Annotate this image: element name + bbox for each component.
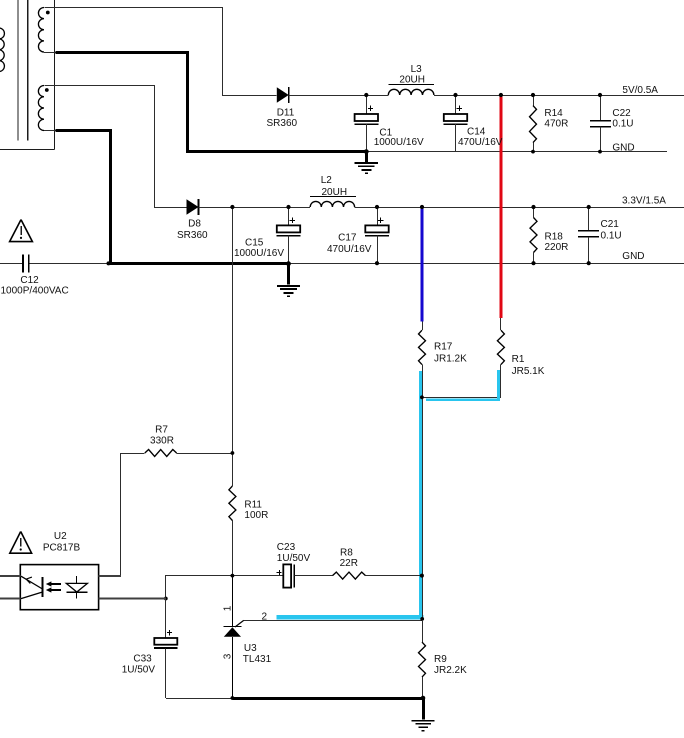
svg-text:GND: GND [612,142,634,153]
svg-text:R1: R1 [512,354,525,365]
svg-text:3: 3 [223,653,234,659]
svg-text:C33: C33 [133,654,152,665]
svg-text:1U/50V: 1U/50V [122,665,156,676]
svg-text:C21: C21 [601,219,620,230]
svg-text:R8: R8 [340,548,353,559]
svg-text:470R: 470R [544,119,568,130]
svg-text:1: 1 [223,605,234,611]
svg-text:470U/16V: 470U/16V [327,244,372,255]
svg-text:22R: 22R [340,558,358,569]
svg-text:R14: R14 [544,108,563,119]
svg-text:U3: U3 [244,643,257,654]
svg-text:C23: C23 [277,542,296,553]
svg-text:1U/50V: 1U/50V [277,553,311,564]
svg-text:20UH: 20UH [399,74,425,85]
svg-text:L3: L3 [411,64,423,75]
svg-text:JR5.1K: JR5.1K [512,366,545,377]
svg-text:1000P/400VAC: 1000P/400VAC [1,286,69,297]
svg-text:R11: R11 [244,500,262,511]
svg-text:1000U/16V: 1000U/16V [234,248,284,259]
svg-text:L2: L2 [321,175,333,186]
svg-text:0.1U: 0.1U [612,119,633,130]
svg-text:330R: 330R [150,436,174,447]
svg-text:C17: C17 [338,233,357,244]
svg-text:5V/0.5A: 5V/0.5A [622,85,658,96]
svg-text:100R: 100R [244,510,268,521]
svg-text:C15: C15 [245,238,264,249]
svg-text:D11: D11 [277,107,295,118]
svg-text:U2: U2 [54,531,67,542]
svg-text:1000U/16V: 1000U/16V [374,137,424,148]
svg-text:SR360: SR360 [177,230,208,241]
svg-text:470U/16V: 470U/16V [458,137,503,148]
svg-text:3.3V/1.5A: 3.3V/1.5A [622,196,666,207]
svg-text:PC817B: PC817B [43,543,81,554]
svg-text:220R: 220R [545,242,569,253]
svg-text:D8: D8 [188,219,201,230]
svg-text:JR1.2K: JR1.2K [434,354,467,365]
svg-text:C22: C22 [612,108,631,119]
svg-text:R17: R17 [434,342,453,353]
svg-text:SR360: SR360 [267,118,298,129]
svg-text:R7: R7 [155,425,168,436]
svg-text:R9: R9 [434,654,447,665]
svg-text:GND: GND [622,251,644,262]
svg-text:C12: C12 [20,275,39,286]
svg-text:2: 2 [262,612,268,623]
svg-text:0.1U: 0.1U [601,230,622,241]
svg-text:JR2.2K: JR2.2K [434,665,467,676]
svg-text:TL431: TL431 [243,654,272,665]
